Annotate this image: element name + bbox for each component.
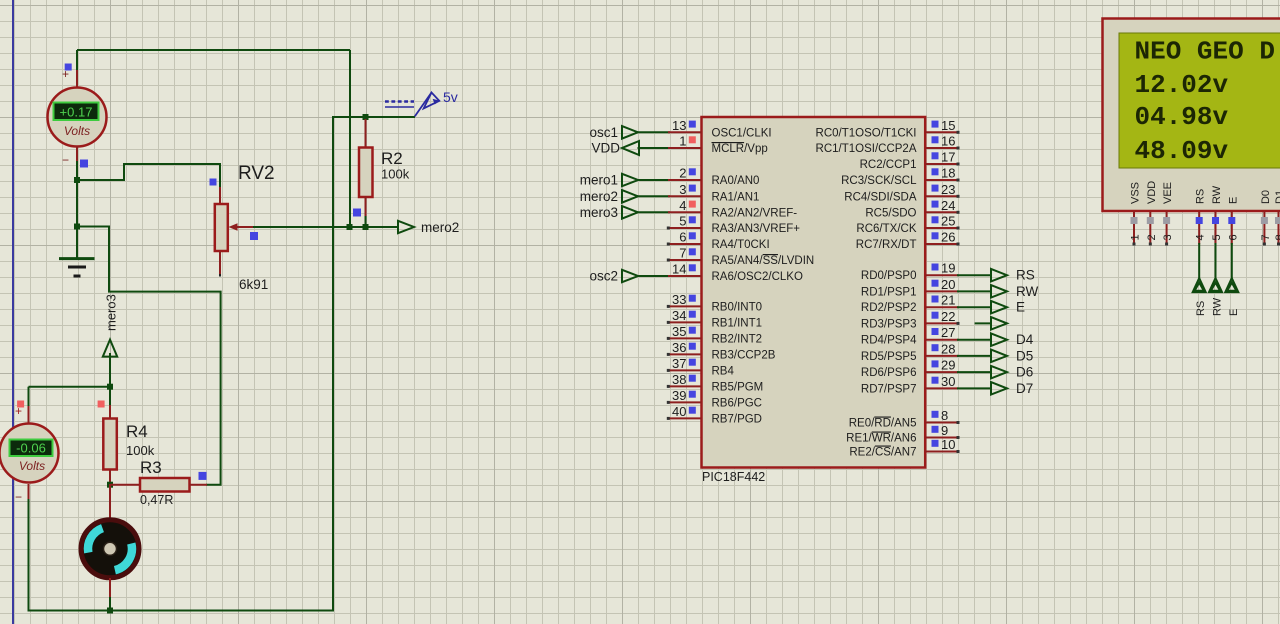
LCD pin 8 stub <box>1278 211 1280 245</box>
svg-text:RA4/T0CKI: RA4/T0CKI <box>712 239 770 251</box>
U1 pin 8 stub <box>925 422 958 424</box>
svg-text:40: 40 <box>672 404 686 419</box>
LCD pin 3 marker <box>1163 217 1170 224</box>
svg-text:6: 6 <box>1227 234 1239 240</box>
svg-text:RC2/CCP1: RC2/CCP1 <box>860 159 917 171</box>
junction at 77,180 <box>74 177 80 183</box>
U1 pin 13 marker <box>689 121 696 128</box>
LCD pin 5 marker <box>1212 217 1219 224</box>
svg-text:mero1: mero1 <box>580 173 618 188</box>
U1 pin 23 marker <box>932 185 939 192</box>
svg-text:19: 19 <box>941 261 955 276</box>
svg-text:RA3/AN3/VREF+: RA3/AN3/VREF+ <box>712 223 801 235</box>
svg-text:NEO GEO D: NEO GEO D <box>1135 36 1275 66</box>
svg-text:30: 30 <box>941 374 955 389</box>
svg-text:25: 25 <box>941 214 955 229</box>
svg-text:RD6/PSP6: RD6/PSP6 <box>861 367 917 379</box>
LCD LCD1 body <box>1103 19 1280 212</box>
U1 pin 33 stub <box>668 305 702 307</box>
U1 pin 6 marker <box>689 232 696 239</box>
svg-text:R4: R4 <box>126 422 148 441</box>
svg-text:1: 1 <box>679 134 686 149</box>
wire pin 27 to terminal D4 <box>957 339 992 341</box>
svg-text:RE2/CS/AN7: RE2/CS/AN7 <box>849 447 916 459</box>
U1 pin 33 marker <box>689 295 696 302</box>
U1 pin 10 stub <box>925 451 958 453</box>
svg-text:6k91: 6k91 <box>239 277 268 292</box>
U1 pin 10 marker <box>932 440 939 447</box>
resistor R4 top pin <box>109 386 111 407</box>
wire pin 29 to terminal D6 <box>957 371 992 373</box>
terminal RS arrow <box>991 269 1007 282</box>
svg-text:OSC1/CLKI: OSC1/CLKI <box>712 127 772 139</box>
svg-text:RC5/SDO: RC5/SDO <box>865 207 916 219</box>
U1 pin 30 marker <box>932 377 939 384</box>
U1 pin 21 stub <box>925 306 958 308</box>
U1 pin 17 marker <box>932 152 939 159</box>
VM1 handle blue <box>80 160 88 168</box>
terminal mero3 arrow <box>103 340 117 357</box>
wire LCD RS down <box>1198 243 1200 280</box>
LCD pin 5 stub <box>1215 211 1217 245</box>
U1 pin 21 marker <box>932 296 939 303</box>
terminal mero1 arrow <box>622 174 638 186</box>
terminal arrow unlabeled <box>991 317 1007 330</box>
svg-text:18: 18 <box>941 166 955 181</box>
svg-text:39: 39 <box>672 388 686 403</box>
svg-text:RD7/PSP7: RD7/PSP7 <box>861 383 917 395</box>
U1 pin 5 stub <box>668 227 702 229</box>
svg-text:mero2: mero2 <box>580 189 618 204</box>
svg-text:33: 33 <box>672 292 686 307</box>
svg-text:D0: D0 <box>1260 190 1272 204</box>
svg-text:0,47R: 0,47R <box>140 493 173 507</box>
LCD pin 7 stub <box>1263 211 1265 245</box>
U1 pin 35 stub <box>668 337 702 339</box>
LCD pin 8 marker <box>1275 217 1280 224</box>
LCD pin 4 marker <box>1196 217 1203 224</box>
potentiometer RV2 <box>215 204 228 251</box>
svg-text:−: − <box>62 153 69 167</box>
VM2 origin marker red <box>17 401 24 408</box>
svg-text:RC6/TX/CK: RC6/TX/CK <box>856 223 916 235</box>
power terminal 5v symbol <box>385 93 440 117</box>
svg-text:VDD: VDD <box>1146 181 1158 204</box>
svg-text:osc2: osc2 <box>589 269 618 284</box>
svg-text:E: E <box>1227 197 1239 204</box>
LCD pin 6 marker <box>1228 217 1235 224</box>
motor M1 top pin <box>109 484 111 519</box>
svg-text:8: 8 <box>1274 234 1280 240</box>
terminal D5 arrow <box>991 350 1007 363</box>
svg-text:21: 21 <box>941 293 955 308</box>
R4 origin marker red <box>98 401 105 408</box>
U1 pin 39 marker <box>689 391 696 398</box>
U1 pin 30 stub <box>925 387 958 389</box>
terminal VDD arrow <box>622 141 639 155</box>
terminal E arrow <box>991 301 1007 314</box>
U1 pin 29 marker <box>932 360 939 367</box>
svg-text:Volts: Volts <box>19 459 45 473</box>
wire pin 30 to terminal D7 <box>957 387 992 389</box>
svg-text:5: 5 <box>1211 234 1223 240</box>
U1 pin 23 stub <box>925 195 958 197</box>
svg-text:38: 38 <box>672 372 686 387</box>
RV2 bottom pin <box>219 251 221 276</box>
U1 pin 40 stub <box>668 417 702 419</box>
LCD pin 2 stub <box>1149 211 1151 245</box>
terminal mero2 arrow <box>398 221 414 233</box>
resistor R3 left pin <box>110 484 139 486</box>
U1 pin 26 stub <box>925 243 958 245</box>
svg-text:37: 37 <box>672 356 686 371</box>
svg-text:4: 4 <box>1195 234 1207 240</box>
LCD pin 2 marker <box>1147 217 1154 224</box>
svg-text:35: 35 <box>672 324 686 339</box>
U1 pin 2 stub <box>638 179 671 181</box>
svg-text:D6: D6 <box>1016 365 1033 380</box>
resistor R4 <box>103 419 117 470</box>
U1 pin 22 stub <box>925 322 958 324</box>
junction at 110,484.7 <box>107 482 113 488</box>
svg-text:RB4: RB4 <box>712 365 735 377</box>
wire LCD E down <box>1231 243 1233 280</box>
U1 pin 37 stub <box>668 369 702 371</box>
wire VM2 to R4 node <box>29 386 111 388</box>
svg-text:9: 9 <box>941 423 948 438</box>
RV2 wiper arrow <box>229 223 238 230</box>
svg-text:RB0/INT0: RB0/INT0 <box>712 301 763 313</box>
svg-text:D4: D4 <box>1016 332 1034 347</box>
U1 pin 29 stub <box>925 371 958 373</box>
resistor R2 top pin <box>365 119 367 148</box>
junction at 77,226.5 <box>74 224 80 230</box>
U1 pin 9 stub <box>925 437 958 439</box>
motor M1 bottom pin <box>109 578 111 599</box>
terminal E up arrow <box>1225 278 1238 292</box>
svg-text:D7: D7 <box>1016 381 1033 396</box>
U1 pin 19 marker <box>932 264 939 271</box>
U1 pin 35 marker <box>689 327 696 334</box>
svg-text:mero3: mero3 <box>580 205 618 220</box>
svg-text:RS: RS <box>1195 301 1207 316</box>
RV2 wiper handle blue <box>250 232 258 240</box>
svg-text:RD2/PSP2: RD2/PSP2 <box>861 302 917 314</box>
svg-text:16: 16 <box>941 134 955 149</box>
U1 pin 25 marker <box>932 216 939 223</box>
U1 pin 16 stub <box>925 147 958 149</box>
U1 pin 28 stub <box>925 355 958 357</box>
svg-text:RB6/PGC: RB6/PGC <box>712 397 763 409</box>
svg-text:RC4/SDI/SDA: RC4/SDI/SDA <box>844 191 917 203</box>
U1 pin 24 marker <box>932 201 939 208</box>
R2 handle blue <box>353 209 361 217</box>
junction R2 top at 365.5,117 <box>363 114 369 120</box>
svg-text:RC3/SCK/SCL: RC3/SCK/SCL <box>841 175 917 187</box>
terminal mero2 arrow <box>622 190 638 203</box>
wire vertical x=350 from top rail down to mero2 node <box>349 50 351 227</box>
terminal RW up arrow <box>1209 278 1222 292</box>
U1 pin 36 stub <box>668 353 702 355</box>
U1 pin 27 marker <box>932 328 939 335</box>
svg-text:RA2/AN2/VREF-: RA2/AN2/VREF- <box>712 207 798 219</box>
svg-text:24: 24 <box>941 198 955 213</box>
svg-text:R2: R2 <box>381 149 403 168</box>
svg-text:RD0/PSP0: RD0/PSP0 <box>861 270 917 282</box>
U1 pin 16 marker <box>932 136 939 143</box>
svg-text:VEE: VEE <box>1162 182 1174 204</box>
svg-text:6: 6 <box>679 230 686 245</box>
svg-text:RC7/RX/DT: RC7/RX/DT <box>856 239 917 251</box>
wire pin 20 to terminal RW <box>957 290 992 292</box>
svg-text:RW: RW <box>1016 284 1039 299</box>
U1 pin 36 marker <box>689 343 696 350</box>
LCD screen <box>1119 33 1280 168</box>
wire pin 21 to terminal E <box>957 306 992 308</box>
svg-text:Volts: Volts <box>64 124 90 138</box>
svg-text:29: 29 <box>941 358 955 373</box>
LCD pin 1 marker <box>1131 217 1138 224</box>
svg-text:MCLR/Vpp: MCLR/Vpp <box>712 143 768 155</box>
U1 pin 4 stub <box>638 211 671 213</box>
svg-text:+: + <box>15 404 22 418</box>
resistor R2 <box>359 148 373 198</box>
RV2 handle blue <box>210 179 217 186</box>
svg-text:mero2: mero2 <box>421 220 459 235</box>
svg-text:RB1/INT1: RB1/INT1 <box>712 317 763 329</box>
svg-text:04.98v: 04.98v <box>1135 102 1229 132</box>
svg-text:3: 3 <box>679 182 686 197</box>
U1 pin 13 stub <box>638 131 671 133</box>
U1 pin 38 stub <box>668 385 702 387</box>
svg-text:23: 23 <box>941 182 955 197</box>
U1 pin 3 marker <box>689 185 696 192</box>
svg-text:26: 26 <box>941 230 955 245</box>
U1 pin 14 marker <box>689 264 696 271</box>
svg-text:RA1/AN1: RA1/AN1 <box>712 191 760 203</box>
svg-text:E: E <box>1228 309 1240 316</box>
U1 pin 6 stub <box>668 243 702 245</box>
motor M1 <box>81 520 139 578</box>
U1 pin 22 short wire <box>975 322 992 324</box>
svg-text:RC0/T1OSO/T1CKI: RC0/T1OSO/T1CKI <box>816 127 917 139</box>
resistor R4 bottom pin <box>109 470 111 486</box>
U1 pin 15 stub <box>925 131 958 133</box>
voltmeter VM2 bottom pin <box>28 484 30 499</box>
VM1 bottom pin <box>76 147 78 164</box>
U1 pin 34 marker <box>689 311 696 318</box>
svg-text:2: 2 <box>679 166 686 181</box>
LCD pin 1 stub <box>1133 211 1135 245</box>
svg-text:48.09v: 48.09v <box>1135 136 1229 166</box>
svg-text:20: 20 <box>941 277 955 292</box>
U1 pin 25 stub <box>925 227 958 229</box>
wire mero3 arrow to node <box>109 353 111 388</box>
junction at 349.5,227 <box>347 224 353 230</box>
svg-text:−: − <box>15 490 22 504</box>
svg-text:100k: 100k <box>126 443 155 458</box>
svg-text:RA6/OSC2/CLKO: RA6/OSC2/CLKO <box>712 271 803 283</box>
U1 pin 34 stub <box>668 321 702 323</box>
R3 right pin <box>190 484 208 486</box>
terminal mero3 arrow <box>622 206 638 219</box>
svg-text:34: 34 <box>672 308 686 323</box>
U1 pin 38 marker <box>689 375 696 382</box>
svg-text:RD4/PSP4: RD4/PSP4 <box>861 335 917 347</box>
U1 pin 39 stub <box>668 401 702 403</box>
U1 pin 22 marker <box>932 312 939 319</box>
svg-text:+0.17: +0.17 <box>60 105 93 120</box>
terminal D4 arrow <box>991 333 1007 346</box>
svg-text:RV2: RV2 <box>238 163 275 184</box>
svg-text:7: 7 <box>1260 234 1272 240</box>
R3 handle blue <box>199 472 207 480</box>
svg-text:1: 1 <box>1130 234 1142 240</box>
svg-text:14: 14 <box>672 262 686 277</box>
wire node A to RV2 top <box>77 164 220 189</box>
voltmeter VM1 <box>48 88 107 147</box>
U1 pin 18 stub <box>925 179 958 181</box>
svg-text:RB7/PGD: RB7/PGD <box>712 413 763 425</box>
svg-text:15: 15 <box>941 118 955 133</box>
wiper wire to mero2 terminal <box>253 226 399 228</box>
svg-text:17: 17 <box>941 150 955 165</box>
U1 pin 40 marker <box>689 407 696 414</box>
LCD pin 6 stub <box>1231 211 1233 245</box>
svg-text:RE0/RD/AN5: RE0/RD/AN5 <box>849 418 917 430</box>
junction at 110,610.5 <box>107 608 113 614</box>
svg-text:8: 8 <box>941 408 948 423</box>
svg-text:5v: 5v <box>443 89 458 105</box>
U1 pin 7 marker <box>689 248 696 255</box>
svg-text:PIC18F442: PIC18F442 <box>702 470 765 484</box>
U1 pin 7 stub <box>668 259 702 261</box>
wire from ground node across to R3 right column <box>77 227 221 485</box>
terminal D6 arrow <box>991 366 1007 379</box>
svg-text:RD1/PSP1: RD1/PSP1 <box>861 286 917 298</box>
svg-text:RB3/CCP2B: RB3/CCP2B <box>712 349 776 361</box>
svg-text:RA0/AN0: RA0/AN0 <box>712 175 760 187</box>
svg-text:RB5/PGM: RB5/PGM <box>712 381 764 393</box>
LCD pin 7 marker <box>1261 217 1268 224</box>
svg-text:28: 28 <box>941 341 955 356</box>
U1 pin 20 stub <box>925 290 958 292</box>
U1 pin 15 marker <box>932 121 939 128</box>
U1 pin 2 marker <box>689 168 696 175</box>
svg-text:27: 27 <box>941 325 955 340</box>
wire LCD RW down <box>1215 243 1217 280</box>
svg-text:osc1: osc1 <box>589 125 618 140</box>
svg-text:2: 2 <box>1146 234 1158 240</box>
svg-text:3: 3 <box>1162 234 1174 240</box>
U1 pin 17 stub <box>925 163 958 165</box>
ground symbol <box>59 257 95 260</box>
U1 pin 1 marker <box>689 136 696 143</box>
resistor R2 bottom pin <box>365 197 367 219</box>
svg-text:VSS: VSS <box>1130 182 1142 204</box>
terminal D7 arrow <box>991 382 1007 395</box>
U1 pin 26 marker <box>932 232 939 239</box>
svg-text:22: 22 <box>941 309 955 324</box>
svg-text:RW: RW <box>1212 297 1224 316</box>
voltmeter VM1 top pin <box>76 50 78 72</box>
terminal RS up arrow <box>1193 278 1206 292</box>
wire top rail from voltmeter1 to vertical drop <box>77 49 350 51</box>
U1 pin 5 marker <box>689 216 696 223</box>
U1 pin 18 marker <box>932 168 939 175</box>
RV2 top pin <box>219 187 221 205</box>
junction at 110,386.7 <box>107 384 113 390</box>
terminal osc2 arrow <box>622 270 638 282</box>
U1 pin 20 marker <box>932 280 939 287</box>
U1 pin 9 marker <box>932 426 939 433</box>
svg-text:4: 4 <box>679 198 686 213</box>
U1 pin 4 marker <box>689 201 696 208</box>
svg-text:E: E <box>1016 300 1025 315</box>
wire pin 19 to terminal RS <box>957 274 992 276</box>
svg-text:13: 13 <box>672 118 686 133</box>
svg-text:RD3/PSP3: RD3/PSP3 <box>861 318 917 330</box>
svg-text:100k: 100k <box>381 167 410 182</box>
wire 5v branch down left side x=333 <box>29 116 334 611</box>
terminal RW arrow <box>991 285 1007 298</box>
svg-text:RW: RW <box>1211 185 1223 204</box>
svg-text:RB2/INT2: RB2/INT2 <box>712 333 763 345</box>
svg-text:VDD: VDD <box>591 141 620 156</box>
svg-text:R3: R3 <box>140 458 162 477</box>
U1 pin 3 stub <box>638 195 671 197</box>
U1 pin 19 stub <box>925 274 958 276</box>
LCD pin 3 stub <box>1166 211 1168 245</box>
svg-text:RA5/AN4/SS/LVDIN: RA5/AN4/SS/LVDIN <box>712 255 815 267</box>
U1 pin 28 marker <box>932 344 939 351</box>
wire pin 28 to terminal D5 <box>957 355 992 357</box>
svg-text:7: 7 <box>679 246 686 261</box>
svg-text:D1: D1 <box>1274 190 1280 204</box>
U1 pin 8 marker <box>932 411 939 418</box>
svg-text:5: 5 <box>679 214 686 229</box>
U1 pin 24 stub <box>925 211 958 213</box>
power rail 5v wire <box>333 116 415 118</box>
svg-text:10: 10 <box>941 437 955 452</box>
voltmeter VM2 <box>0 424 59 483</box>
U1 pin 14 stub <box>638 275 671 277</box>
svg-text:RS: RS <box>1016 268 1035 283</box>
svg-text:36: 36 <box>672 340 686 355</box>
sheet border blue line <box>12 0 14 624</box>
svg-text:D5: D5 <box>1016 348 1033 363</box>
VM1 origin marker blue <box>65 64 72 71</box>
U1 pin 37 marker <box>689 359 696 366</box>
U1 pin 27 stub <box>925 339 958 341</box>
resistor R3 <box>140 478 190 492</box>
svg-text:12.02v: 12.02v <box>1135 70 1229 100</box>
junction at 365.5,227 <box>363 224 369 230</box>
wire voltmeter1 to ground node <box>76 180 78 259</box>
LCD pin 4 stub <box>1198 211 1200 245</box>
U1 pin 1 stub <box>638 147 671 149</box>
svg-text:mero3: mero3 <box>104 294 119 331</box>
svg-text:RD5/PSP5: RD5/PSP5 <box>861 351 917 363</box>
microcontroller U1 PIC18F442 body <box>702 117 926 468</box>
VM2 top pin <box>28 404 30 423</box>
svg-text:RS: RS <box>1195 189 1207 204</box>
svg-text:-0.06: -0.06 <box>16 441 46 456</box>
svg-text:RC1/T1OSI/CCP2A: RC1/T1OSI/CCP2A <box>816 143 917 155</box>
svg-text:RE1/WR/AN6: RE1/WR/AN6 <box>846 433 916 445</box>
terminal osc1 arrow <box>622 126 638 139</box>
